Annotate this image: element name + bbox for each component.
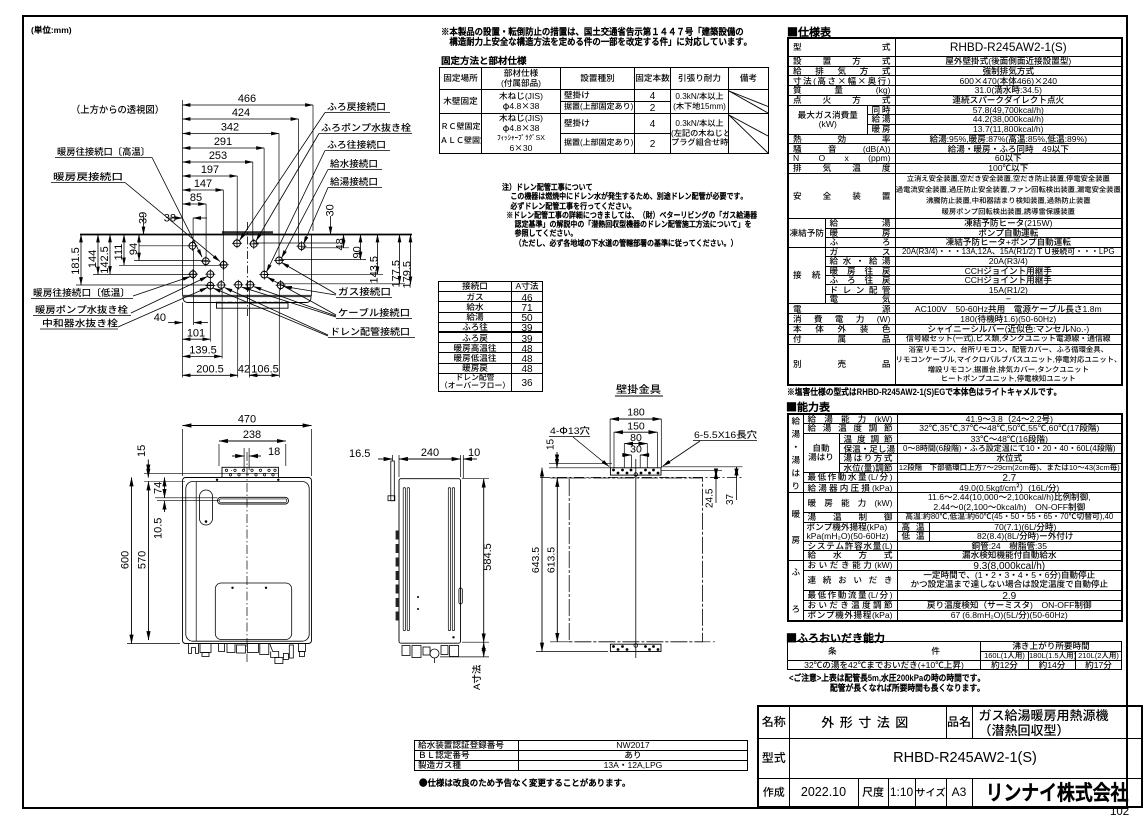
label 暖房ポンプ水抜き栓 (33, 277, 208, 317)
installation notice text (441, 26, 752, 46)
dim 15 front (133, 445, 222, 478)
wall reference line (80, 234, 412, 236)
label 暖房戻接続口 (51, 169, 220, 262)
svg-text:570: 570 (134, 551, 150, 569)
label ふろポンプ水抜き栓 (256, 120, 412, 241)
label ふろ戻接続口 (240, 99, 391, 241)
svg-text:中和器水抜き栓: 中和器水抜き栓 (42, 316, 119, 330)
dim 424 (183, 104, 299, 243)
bottom dim 42 (238, 361, 260, 377)
svg-text:16.5: 16.5 (349, 445, 370, 461)
dim 470 (183, 411, 312, 477)
dim 18 (outside arrows) (232, 443, 280, 470)
svg-text:200.5: 200.5 (196, 361, 224, 377)
side louver left pair (403, 488, 405, 631)
top edge screws (216, 479, 218, 481)
svg-text:ふろポンプ水抜き栓: ふろポンプ水抜き栓 (321, 120, 412, 134)
dim 291 (183, 133, 265, 271)
label 給湯接続口 (304, 174, 383, 244)
svg-text:6-5.5X16長穴: 6-5.5X16長穴 (694, 427, 758, 441)
spec change note (419, 776, 631, 789)
svg-text:壁掛金具: 壁掛金具 (616, 382, 662, 397)
svg-text:139.5: 139.5 (189, 342, 217, 358)
right depth dim 143.5 (264, 235, 383, 284)
fixing table heading (441, 53, 527, 67)
front panel bump (183, 297, 311, 303)
dim 584.5 (462, 479, 495, 643)
spec table 仕様表 (787, 37, 1123, 386)
dim 240 (399, 444, 461, 477)
oval vent (200, 490, 213, 525)
dim 180 (610, 405, 661, 469)
center line front view (246, 452, 248, 662)
dim 39 (depth, above wall line) (135, 212, 191, 246)
dim 16.5 (349, 445, 393, 461)
svg-text:179.5: 179.5 (399, 261, 415, 289)
svg-text:ドレン配管接続口: ドレン配管接続口 (330, 324, 410, 338)
svg-text:40: 40 (154, 309, 166, 325)
top slot louver (218, 497, 289, 504)
svg-text:暖房往接続口〔低温〕: 暖房往接続口〔低温〕 (33, 285, 130, 299)
wall bracket seen from top (222, 231, 273, 234)
dim 570 (134, 482, 186, 641)
right depth dim 179.5 (399, 235, 415, 289)
dim 342 (183, 119, 280, 258)
right depth dim 48 (302, 235, 349, 251)
label ふろ往接続口 (267, 137, 391, 272)
top bracket flange with holes (610, 468, 661, 477)
bath reheat heading (786, 630, 885, 646)
dim 37 (721, 467, 737, 505)
svg-text:470: 470 (238, 411, 256, 427)
svg-text:613.5: 613.5 (543, 547, 558, 573)
svg-text:111: 111 (110, 244, 126, 261)
label 4-Φ13穴 (549, 423, 609, 467)
center line (635, 459, 637, 658)
dim 85 (183, 189, 207, 257)
svg-text:15: 15 (542, 438, 557, 450)
dim 253 (183, 147, 253, 241)
svg-text:74: 74 (150, 482, 166, 494)
bottom dim 40 (outside arrows) (154, 309, 208, 325)
side case (399, 479, 461, 644)
svg-text:ガス接続口: ガス接続口 (338, 284, 391, 298)
right depth dim 30 (above wall line) (254, 204, 338, 243)
svg-text:（上方からの透視図）: （上方からの透視図） (71, 102, 164, 116)
label ドレン配管接続口 (213, 288, 415, 339)
svg-text:15: 15 (133, 445, 149, 457)
label 暖房往接続口〔高温〕 (55, 144, 202, 257)
capacity table 能力表 (787, 413, 1123, 622)
page number 102 (1110, 806, 1129, 818)
svg-text:給湯接続口: 給湯接続口 (330, 174, 378, 188)
svg-text:18: 18 (268, 443, 280, 459)
svg-text:暖房ポンプ水抜き栓: 暖房ポンプ水抜き栓 (35, 302, 129, 316)
left depth dim 94 (125, 235, 208, 261)
svg-text:143.5: 143.5 (366, 256, 382, 284)
label 中和器水抜き栓 (40, 288, 208, 330)
svg-text:30: 30 (630, 442, 642, 457)
svg-text:10: 10 (468, 444, 480, 460)
svg-text:48: 48 (332, 238, 348, 250)
centerline vertical (top view) (247, 222, 249, 316)
bracket holes (225, 469, 276, 476)
capacity table heading (786, 399, 830, 415)
bottom bracket flange (610, 644, 661, 652)
svg-text:101: 101 (187, 325, 205, 341)
dim 643.5 (528, 468, 608, 652)
dim 80 (624, 430, 647, 468)
dim 466 (183, 90, 314, 231)
bottom dim 101 (183, 325, 211, 341)
right depth dim 177.5 (280, 235, 405, 288)
dim 10.5 (150, 501, 220, 539)
dim 10 (463, 444, 480, 478)
rear bracket hook (391, 461, 395, 501)
svg-text:10.5: 10.5 (150, 518, 166, 539)
dim 238 (219, 426, 286, 466)
spec table heading (787, 24, 831, 40)
bracket view caption (615, 382, 663, 397)
svg-text:暖房往接続口〔高温〕: 暖房往接続口〔高温〕 (57, 144, 150, 158)
dash line through bump (216, 301, 288, 303)
svg-text:240: 240 (421, 444, 439, 460)
top wall bracket (222, 467, 278, 477)
bottom dim 200.5 (183, 361, 238, 377)
drain pan rect (217, 303, 289, 308)
title block (757, 705, 1143, 808)
caution note (789, 671, 985, 684)
dim 15 bracket (542, 438, 613, 467)
unit outline (rear view) (569, 478, 702, 642)
right depth dim 90 (279, 235, 366, 260)
dim A寸法 (440, 642, 489, 690)
svg-text:24.5: 24.5 (701, 488, 716, 508)
vent screw dot (205, 520, 208, 523)
svg-text:ふろ往接続口: ふろ往接続口 (327, 137, 386, 151)
dim 600 (117, 478, 183, 644)
dim 24.5 (701, 470, 717, 508)
width dim extension left (182, 100, 184, 235)
side bottom pipes (402, 646, 459, 664)
A-dimension table 接続口A寸法 (438, 281, 543, 392)
svg-text:238: 238 (243, 426, 261, 442)
front oval handle (459, 588, 462, 604)
dim 147 (183, 175, 224, 281)
benkou diagonal slashes (729, 91, 768, 153)
svg-text:4-Φ13穴: 4-Φ13穴 (550, 423, 591, 437)
drain note text (502, 183, 757, 248)
svg-text:600: 600 (117, 551, 133, 569)
svg-text:584.5: 584.5 (479, 543, 495, 571)
left depth dim 181.5 (67, 235, 213, 286)
dim 150 (614, 419, 657, 469)
dim 74 (150, 478, 218, 498)
top edge dashdot (540, 476, 742, 478)
label 6-5.5X16長穴 (663, 427, 758, 466)
svg-text:ケーブル接続口: ケーブル接続口 (338, 305, 410, 319)
svg-text:85: 85 (190, 189, 202, 205)
unit front edge (top view) (183, 295, 312, 297)
connection ports (circle-cross symbols) (187, 238, 306, 290)
rear terminals (396, 531, 400, 621)
unit side edges (top view) (182, 235, 184, 297)
dim 197 (183, 161, 238, 240)
svg-text:39: 39 (135, 212, 151, 224)
svg-text:106.5: 106.5 (251, 361, 279, 377)
svg-text:給水接続口: 給水接続口 (330, 156, 378, 170)
svg-text:30: 30 (322, 204, 338, 216)
svg-text:ふろ戻接続口: ふろ戻接続口 (327, 99, 386, 113)
svg-text:42: 42 (238, 361, 250, 377)
svg-text:94: 94 (125, 243, 141, 255)
right ext lines (661, 466, 742, 468)
side louver right pair (448, 488, 450, 631)
label 暖房往接続口〔低温〕 (31, 277, 191, 300)
svg-text:181.5: 181.5 (67, 247, 83, 275)
svg-text:A寸法: A寸法 (469, 664, 483, 690)
svg-text:643.5: 643.5 (528, 547, 543, 573)
svg-text:90: 90 (349, 246, 365, 258)
svg-text:180: 180 (627, 405, 645, 420)
left depth dim 111 (110, 235, 226, 266)
unit note (31, 24, 72, 36)
salt-spec note (787, 385, 1061, 398)
svg-text:暖房戻接続口: 暖房戻接続口 (53, 169, 123, 183)
fixing method table 固定方法と部材仕様 (439, 67, 769, 154)
bottom extension lines (182, 303, 184, 378)
bottom pipe stubs (189, 644, 306, 664)
bottom dim 139.5 (183, 342, 223, 358)
bath reheat table ふろおいだき能力 (787, 641, 1122, 670)
dim 38 (outside arrows) (164, 210, 207, 243)
svg-text:37: 37 (721, 493, 736, 505)
left depth dim 142.5 (96, 235, 112, 275)
certification table NW2017 (414, 740, 748, 771)
bottom dim 106.5 (249, 361, 279, 377)
outer case (183, 478, 312, 644)
left depth dim 144 (84, 235, 196, 275)
dim 30 (outside arrows) (622, 442, 650, 469)
side dots (417, 596, 419, 598)
panel seam (195, 482, 197, 641)
label ガス接続口 (282, 263, 393, 299)
label ケーブル接続口 (242, 277, 413, 319)
dim 613.5 (543, 478, 716, 642)
lower access panel (215, 583, 291, 640)
front panel (186, 482, 309, 642)
label 給水接続口 (282, 156, 383, 258)
